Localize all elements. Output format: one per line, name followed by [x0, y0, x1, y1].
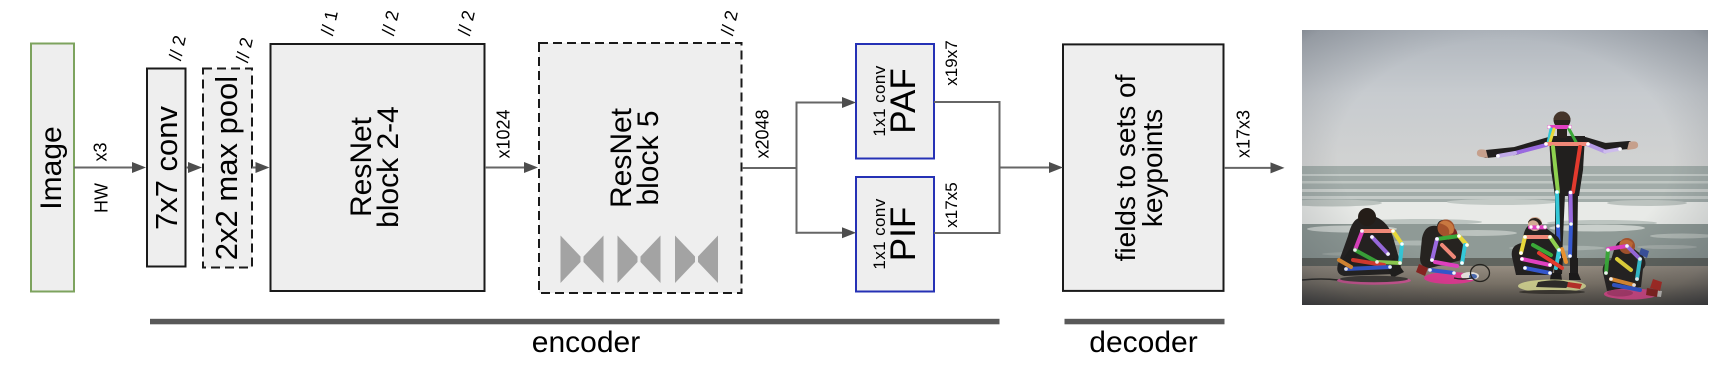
block ResNet block 5 (dashed): [539, 43, 742, 293]
label HW: [92, 183, 113, 213]
block fields-to-sets-of-keypoints decoder: [1063, 44, 1224, 291]
label 2x2 max pool: [209, 75, 245, 259]
photo sea band: [1302, 166, 1708, 206]
wire max pool to ResNet 2-4: [252, 167, 258, 169]
kid4 skeleton: [1606, 246, 1640, 290]
kid4 board: [1604, 289, 1658, 300]
label PAF: [868, 65, 916, 136]
wire ResNet 5 to branch node: [742, 167, 797, 169]
dilation bowtie 3: [675, 236, 718, 284]
wire 7x7 conv to max pool: [186, 167, 191, 169]
block PAF (blue): [856, 44, 934, 159]
photo big foam band: [1302, 202, 1708, 224]
dilation bowtie 2: [618, 236, 661, 284]
label 7x7 conv: [149, 105, 185, 229]
kid2 red shoe: [1416, 264, 1428, 276]
label x3: [90, 142, 111, 161]
branch vertical wire: [796, 102, 798, 234]
leash loop: [1471, 265, 1490, 282]
label decoder: [1089, 326, 1197, 360]
label x2048: [753, 109, 774, 158]
label //1 over ResNet 2-4: [317, 8, 343, 37]
photo dark waterline: [1302, 258, 1708, 268]
label //2 over ResNet 5: [717, 8, 743, 37]
block PIF (blue): [856, 177, 934, 292]
label x19x7: [942, 41, 962, 86]
block ResNet block 2-4: [271, 44, 485, 291]
kid4 red boots: [1650, 279, 1662, 291]
kid3 body: [1512, 217, 1561, 275]
label x17x5: [942, 182, 962, 227]
collector vertical wire: [999, 101, 1001, 234]
encoder extent bar: [150, 319, 1000, 325]
man hands: [1627, 141, 1638, 150]
kid4 body: [1603, 239, 1646, 291]
label PIF: [868, 198, 916, 269]
kid2 board pink: [1424, 272, 1476, 284]
label x1024: [493, 110, 514, 159]
wire ResNet 2-4 to ResNet 5 (x1024): [485, 167, 526, 169]
label //2 over ResNet 2-4 mid: [378, 8, 404, 37]
dilation bowtie 1: [561, 236, 604, 284]
wire Image to 7x7 conv: [74, 167, 134, 169]
kid1 body: [1337, 209, 1401, 276]
decoder extent bar: [1065, 319, 1225, 325]
man feet: [1550, 273, 1562, 280]
label ResNet block 5: [608, 108, 662, 208]
label encoder: [532, 326, 640, 360]
label x17x3: [1234, 110, 1255, 158]
kid1 board: [1337, 276, 1411, 284]
label Image: [35, 126, 69, 209]
kid3 board: [1518, 280, 1586, 293]
kid2 body: [1420, 220, 1466, 268]
wire collector to decoder: [1000, 167, 1051, 169]
man head/hair: [1557, 126, 1567, 138]
block 7x7 conv: [147, 69, 186, 267]
label //2 over 7x7 conv: [165, 34, 191, 63]
photo sand: [1302, 266, 1708, 305]
block 2x2 max pool (dashed): [203, 69, 252, 268]
label //2 over ResNet 2-4 right: [454, 8, 480, 37]
label fields to sets of keypoints: [1112, 74, 1166, 261]
standing man body: [1486, 141, 1629, 154]
photo vignette: [1302, 30, 1708, 305]
wire branch to PIF: [796, 232, 845, 234]
wire decoder output (x17x3): [1224, 167, 1271, 169]
man skeleton: [1498, 127, 1620, 257]
kid1 skeleton: [1339, 231, 1402, 269]
kid3 skeleton: [1521, 127, 1566, 273]
wire PAF output: [934, 101, 1000, 103]
photo leash line left: [1302, 279, 1338, 280]
label //2 over max pool: [232, 36, 258, 65]
photo mid sea: [1302, 224, 1708, 260]
block Image (green input box): [31, 44, 74, 292]
photo sky: [1302, 30, 1708, 170]
kid2 skeleton: [1430, 236, 1467, 273]
wire branch to PAF: [796, 102, 845, 104]
label ResNet block 2-4: [348, 106, 402, 228]
wire PIF output: [934, 232, 1000, 234]
photo distant foam lines: [1302, 174, 1708, 176]
